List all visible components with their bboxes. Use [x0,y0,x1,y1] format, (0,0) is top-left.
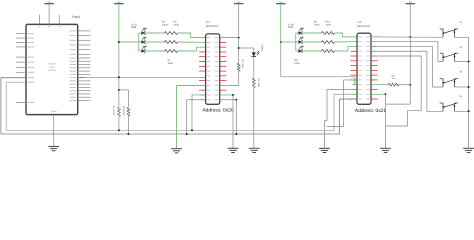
svg-text:10kΩ: 10kΩ [257,82,260,88]
svg-text:330Ω: 330Ω [162,23,168,26]
svg-text:330Ω: 330Ω [314,23,320,26]
svg-text:1kΩ: 1kΩ [392,77,396,80]
svg-text:Red: Red [261,47,264,52]
svg-text:330Ω: 330Ω [174,23,180,26]
svg-text:R11: R11 [294,59,299,62]
svg-text:IC1: IC1 [206,21,211,24]
svg-text:4.7kΩ: 4.7kΩ [112,109,115,115]
svg-text:IC2: IC2 [357,21,362,24]
svg-text:MCP23017: MCP23017 [357,25,371,28]
svg-text:RGB: RGB [288,26,294,29]
svg-text:10kΩ: 10kΩ [241,63,244,69]
svg-text:RGB: RGB [131,26,137,29]
svg-text:330Ω: 330Ω [168,62,174,65]
svg-text:Part1: Part1 [72,15,80,19]
svg-text:R10: R10 [326,21,331,24]
svg-text:Address: 0x20: Address: 0x20 [202,108,234,114]
svg-text:330Ω: 330Ω [326,23,332,26]
svg-text:Address: 0x21: Address: 0x21 [355,108,387,114]
svg-text:4.7kΩ: 4.7kΩ [122,109,125,115]
svg-text:MCP23017: MCP23017 [206,25,220,28]
svg-text:(Rev3): (Rev3) [48,69,56,72]
svg-text:330Ω: 330Ω [294,62,300,65]
